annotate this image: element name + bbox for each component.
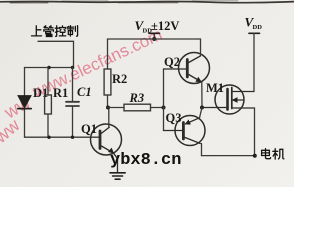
- 上: [32, 26, 42, 36]
- wire: bottom-left rail to Q1 base: [25, 136, 100, 138]
- svg-text:ybx8.cn: ybx8.cn: [110, 151, 181, 170]
- svg-text:±12V: ±12V: [151, 19, 179, 33]
- ground (Q1 emitter): [110, 173, 125, 179]
- label VDD: [245, 15, 263, 32]
- node: +12V on rail: [152, 37, 156, 41]
- svg-text:Q1: Q1: [81, 122, 97, 136]
- transistor Q3: [164, 116, 206, 146]
- 管: [44, 26, 54, 37]
- wire: VDD down to M1 drain: [253, 33, 255, 91]
- svg-text:M1: M1: [206, 81, 224, 95]
- capacitor C1: [66, 68, 79, 138]
- svg-text:D1: D1: [33, 86, 48, 100]
- terminal VDD+12V: [149, 33, 160, 38]
- wire: M1 source down to motor rail: [254, 108, 256, 156]
- node: R2/R3/Q1 junction: [106, 106, 110, 110]
- node: motor terminal: [253, 154, 257, 158]
- wire: Q1 collector up to node: [108, 108, 110, 128]
- wire: +12V rail: [108, 38, 201, 40]
- node: gate drive: [200, 106, 204, 110]
- node: rail to C1 / control: [71, 66, 74, 69]
- wire: base line Q2/Q3: [163, 69, 165, 131]
- scan edge strip (page top): [0, 1, 294, 3]
- svg-text:R3: R3: [129, 91, 145, 105]
- resistor R1: [45, 68, 52, 138]
- wire: left leg (D1 branch): [24, 68, 26, 138]
- node: R3 to base line: [162, 106, 166, 110]
- svg-text:R2: R2: [112, 72, 127, 86]
- wire: Q2 collector to rail: [200, 39, 202, 56]
- 机: [273, 149, 284, 159]
- node: rail C1: [71, 136, 74, 139]
- 电: [262, 149, 271, 159]
- svg-text:C1: C1: [77, 85, 92, 99]
- mosfet M1: [202, 85, 255, 114]
- node: rail R1: [47, 136, 50, 139]
- resistor R3: [108, 104, 164, 111]
- wire: motor rail: [202, 155, 255, 157]
- resistor R2: [104, 39, 111, 108]
- transistor Q2: [164, 53, 210, 84]
- svg-text:Q2: Q2: [164, 55, 180, 69]
- svg-text:R1: R1: [53, 86, 68, 100]
- transistor Q1: [91, 124, 122, 172]
- 制: [67, 26, 77, 37]
- label motor 电机 (drawn glyphs): [262, 149, 284, 159]
- wire: Q3 collector down to motor rail: [201, 144, 203, 156]
- terminal VDD (drain): [249, 32, 260, 34]
- node: rail to R1: [47, 66, 50, 69]
- wire: control input to top-left rail: [38, 41, 74, 67]
- label VDD+-12V: [135, 18, 180, 35]
- wire: Q3 emitter to gate node: [200, 108, 203, 118]
- wire: top-left rail: [25, 67, 74, 69]
- svg-text:DD: DD: [253, 24, 263, 31]
- watermark www.elecfans.com: [0, 25, 165, 148]
- label: control input 上管控制 (drawn glyphs): [32, 26, 78, 37]
- wire: Q2 emitter to gate node: [201, 82, 203, 108]
- diode D1: [18, 96, 31, 109]
- svg-text:Q3: Q3: [166, 111, 182, 125]
- 控: [55, 26, 66, 37]
